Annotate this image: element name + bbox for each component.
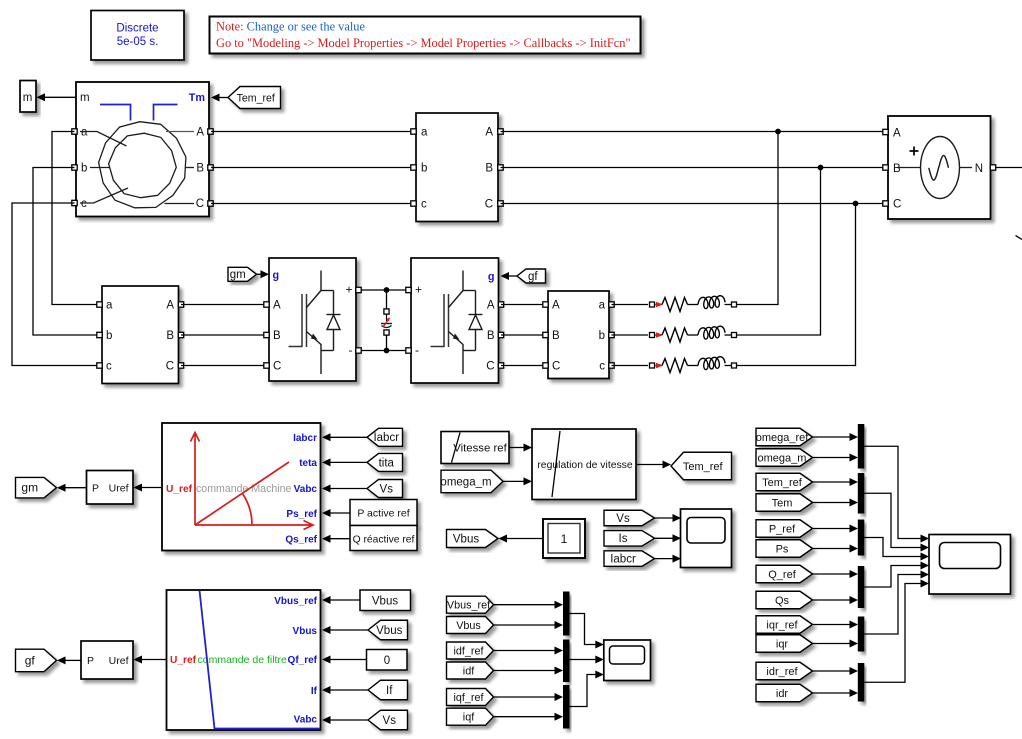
tag: Tem_ref Goto [671,452,732,480]
icon: source plus [910,150,919,152]
svg-text:C: C [273,361,281,373]
wire: meas1 C to source C [501,203,889,205]
svg-text:omega_m: omega_m [440,476,491,488]
wire: machine c loop to meas2 c [12,203,99,366]
svg-text:gm: gm [21,481,38,495]
svg-text:b: b [599,330,605,342]
svg-text:m: m [80,92,90,104]
wire: right mux2 to scope3 [864,493,920,547]
port: meas1 c [411,201,416,206]
svg-text:B: B [485,163,493,175]
component: RL branch phase c [612,365,649,367]
tag: Tem_ref From (right mux) [756,473,813,491]
junction: phase C [853,201,859,207]
wire: DC bus minus [361,350,409,352]
port: meas3 C [543,363,548,368]
port: source A [883,129,888,134]
icon: machine lead b [90,167,110,169]
block: IGBT converter 1 (machine side) [269,258,356,381]
svg-text:gf: gf [528,271,538,283]
icon: machine outer stator circle [99,122,186,208]
mux: mid bar 2 [563,640,570,683]
wire: RL b up to phase B [737,168,821,336]
block: terminator m [20,81,36,113]
svg-text:Vbus: Vbus [293,626,318,637]
port: meas2 B [178,332,183,337]
block: scope 1 [681,509,732,568]
svg-text:Ps: Ps [776,543,789,555]
svg-text:C: C [552,361,560,373]
wire: iqr_ref to right mux [813,624,850,626]
wire: Qs to right mux [813,599,850,601]
wire: Vbus rect to Vbus_ref [331,599,361,601]
svg-text:P: P [92,483,99,495]
svg-text:omega_m: omega_m [758,452,807,464]
svg-text:Tem: Tem [772,497,793,509]
wire: Tem_ref to right mux [813,481,850,483]
svg-text:A: A [487,300,495,312]
wire: Tem_ref to machine Tm [220,97,230,99]
icon: blue curve [200,591,321,729]
wire: source N output [996,167,1022,169]
wire: P1 to gm goto [65,487,87,489]
svg-text:c: c [106,361,112,373]
icon: machine cage blue left [100,105,131,121]
svg-text:C: C [485,199,493,211]
port: meas2 c [97,363,102,368]
tag: Vs From (machine) [367,480,403,498]
wire: machine b loop to meas2 b [33,168,99,336]
tag: gm Goto [16,477,57,498]
wire: mid mux2 to scope2 [570,659,596,661]
wire: mid mux1 to scope2 [570,614,596,645]
icon: source lead left [898,167,921,169]
block: IGBT converter 2 (grid side) [411,258,499,383]
wire: meas2 A to converter1 A [181,304,269,306]
port: meas3 A [543,302,548,307]
port: meas3 b [609,332,614,337]
port: machine B [208,165,213,170]
wire: Tem to right mux [813,502,850,504]
svg-text:B: B [166,330,174,342]
junction: DC plus [384,287,390,293]
svg-text:B: B [487,330,495,342]
svg-text:Vbus_ref: Vbus_ref [447,600,491,612]
tag: Vbus Goto (from 1) [447,530,499,548]
block: Vitesse ref [441,432,509,464]
block: Vbus goto rect [360,590,411,611]
tag: iqf From (mid mux) [447,708,494,725]
svg-text:-: - [415,343,419,357]
svg-text:gm: gm [230,269,246,281]
wire: Q_ref to right mux [813,573,850,575]
svg-text:Qf_ref: Qf_ref [288,655,318,666]
block: asynchronous machine [76,82,209,217]
icon: red arc [243,494,253,526]
tag: iqf_ref From (mid mux) [447,689,494,706]
port: machine b [72,165,77,170]
block: constant 1 double border [543,519,585,558]
icon: machine lead C [165,203,195,205]
svg-text:5e-05 s.: 5e-05 s. [117,36,159,48]
wire: Iabcr to scope1 [655,558,673,560]
svg-text:g: g [488,271,495,283]
svg-text:C: C [486,361,494,373]
tag: Vs From (filtre) [368,710,408,730]
svg-text:C: C [196,198,204,210]
svg-text:Q réactive ref: Q réactive ref [353,535,415,546]
port: converter2 minus [406,348,411,353]
port: meas1 B [498,165,503,170]
wire: 1 to Vbus goto [507,538,544,540]
svg-text:Vitesse ref: Vitesse ref [453,443,507,455]
svg-text:iqf: iqf [463,712,475,724]
icon: machine lead c [80,188,128,203]
port: machine A [208,129,213,134]
svg-text:Iabcr: Iabcr [610,554,636,566]
block: commande Machine [162,423,321,551]
block: Q reactive ref [350,526,417,551]
wire: omega_m to regulation [503,480,525,482]
block: scope 3 [929,535,1011,595]
svg-text:idf: idf [463,665,475,677]
wire: converter2 B to meas3 B [501,334,548,336]
svg-text:gf: gf [25,653,36,667]
svg-text:commande de filtre: commande de filtre [198,654,287,666]
svg-text:regulation de vitesse: regulation de vitesse [537,460,633,471]
wire: iqf_ref to mux [494,696,555,698]
port: machine a [72,129,77,134]
svg-text:-: - [349,343,353,357]
svg-text:P active ref: P active ref [357,508,409,520]
mux: right bar 5 [858,617,865,652]
svg-text:Uref: Uref [109,655,129,667]
block: constant 0 [367,650,408,671]
svg-text:P_ref: P_ref [769,523,796,535]
port: meas1 b [411,165,416,170]
wire: right mux3 to scope3 [864,538,920,557]
svg-text:m: m [23,92,33,104]
wire: tita to commande [331,461,368,463]
wire: omega_ref to right mux [813,436,850,438]
svg-text:Vbus_ref: Vbus_ref [274,596,317,607]
svg-text:U_ref: U_ref [170,655,197,666]
svg-text:Discrete: Discrete [116,23,158,35]
icon: source ellipse [921,137,960,199]
mux: right bar 4 [858,566,865,608]
tag: Vs From (scope1) [604,510,655,526]
block: powergui Discrete 5e-05 s. [91,11,184,61]
wire: right mux5 to scope3 [864,575,920,635]
tag: idr_ref From (right mux) [756,662,813,680]
tag: Is From (scope1) [604,531,655,547]
svg-text:A: A [166,300,174,312]
junction: phase A [775,129,781,135]
tag: idr From (right mux) [756,684,813,702]
wire: idf_ref to mux [494,650,555,652]
wire: Iabcr to commande [331,436,368,438]
svg-text:0: 0 [384,655,390,667]
svg-text:A: A [893,128,901,140]
port: source C [883,201,888,206]
svg-text:c: c [81,198,87,210]
icon: machine lead B [186,167,194,169]
port: converter2 B [498,332,503,337]
wire: RL a up to phase A [737,132,779,305]
svg-text:a: a [421,127,428,139]
port: converter2 A [498,302,503,307]
mux: right bar 3 [858,520,865,556]
tag: Vbus From (mid mux) [447,617,494,634]
svg-text:a: a [106,300,113,312]
svg-text:Tem_ref: Tem_ref [237,92,275,104]
svg-text:c: c [421,199,427,211]
svg-text:omega_ref: omega_ref [756,432,810,444]
tag: Iabcr From [367,428,403,446]
svg-text:Uref: Uref [109,483,129,495]
tag: omega_m From (vitesse) [441,470,503,493]
capacitor: DC bus branch [386,290,388,309]
svg-text:Qs: Qs [775,595,790,607]
wire: If to filtre [331,689,369,691]
port: converter2 C [498,363,503,368]
svg-text:idf_ref: idf_ref [453,645,484,657]
port: meas3 c [609,363,614,368]
wire: Is to scope1 [655,537,673,539]
port: converter1 minus [356,348,361,353]
wire: P active ref to commande [331,512,351,514]
wire: converter2 C to meas3 C [501,365,548,367]
svg-text:Iabcr: Iabcr [293,433,317,444]
block: scope 2 [604,640,651,681]
svg-text:Note: Change or see the value: Note: Change or see the value [216,20,365,34]
block: three-phase measurement 3 [548,291,609,379]
tag: Qs From (right mux) [756,591,813,609]
svg-text:idr: idr [776,688,789,700]
port: meas2 b [97,332,102,337]
svg-text:Is: Is [619,533,628,545]
port: converter1 plus [356,287,361,292]
svg-text:A: A [196,127,204,139]
svg-text:Q_ref: Q_ref [768,569,796,581]
port: source B [883,165,888,170]
wire: meas1 A to source A [501,131,889,133]
port: converter1 B [264,332,269,337]
block: PWM generator 2 [81,641,133,679]
tag: idf_ref From (mid mux) [447,642,494,659]
mux: right bar 1 [858,424,865,469]
block: regulation de vitesse [532,429,636,500]
port: meas3 B [543,332,548,337]
svg-text:a: a [599,300,606,312]
port: meas2 C [178,363,183,368]
block: three-phase source [888,116,991,219]
wire: 0 to Qf_ref [331,659,367,661]
port: source N [990,165,995,170]
svg-text:Ps_ref: Ps_ref [286,509,317,520]
wire: P_ref to right mux [813,528,850,530]
wire: machine C to measurement c [211,203,416,205]
svg-text:Vbus: Vbus [456,620,481,632]
port: meas2 a [97,302,102,307]
port: machine C [208,201,213,206]
svg-text:Iabcr: Iabcr [373,432,399,444]
svg-text:P: P [87,655,94,667]
port: meas2 A [178,302,183,307]
wire: Vs to commande [331,488,368,490]
tag: iqr_ref From (right mux) [756,616,813,634]
svg-text:A: A [485,127,493,139]
svg-text:Vbus: Vbus [376,625,402,637]
svg-text:B: B [552,330,560,342]
svg-text:1: 1 [561,532,568,546]
icon: machine lead A [166,131,194,133]
svg-text:g: g [273,270,280,282]
svg-text:b: b [81,163,87,175]
svg-text:Qs_ref: Qs_ref [285,535,317,546]
mux: right bar 2 [858,473,865,514]
port: meas1 A [498,129,503,134]
svg-text:+: + [415,283,422,297]
wire: right mux4 to scope3 [864,566,920,588]
svg-text:idr_ref: idr_ref [766,666,798,678]
wire: DC bus plus [361,289,409,291]
icon: regulation curve [552,431,560,497]
icon: machine cage blue right [154,105,178,121]
svg-text:A: A [273,300,281,312]
junction: DC minus [384,348,390,354]
block: P active ref [350,500,417,526]
svg-text:If: If [386,685,393,697]
annotation: note box [210,17,641,54]
icon: red axes [191,433,200,526]
svg-text:teta: teta [299,458,317,469]
svg-text:Vs: Vs [616,513,630,525]
tag: Q_ref From (right mux) [756,565,813,583]
svg-text:Vabc: Vabc [294,715,318,726]
wire: meas2 C to converter1 C [181,365,269,367]
icon: machine inner rotor circle [109,133,177,198]
wire: Vs to Vabc filtre [331,719,369,721]
icon: converter1 IGBT+diode [289,346,303,348]
tag: If From [368,680,408,700]
svg-text:+: + [345,283,352,297]
wire: right mux6 to scope3 [864,584,920,683]
wire: Vitesse ref to regulation [509,447,525,449]
icon: machine lead a [80,132,127,147]
wire: P2 to gf goto [65,659,81,661]
svg-text:C: C [166,361,174,373]
tag: omega_ref From (right mux) [756,428,813,446]
wire: mid mux3 to scope2 [570,675,596,707]
icon: red diagonal [195,462,289,525]
tag: omega_m From (right mux) [756,449,813,467]
icon: source sine [929,156,949,181]
tag: idf From (mid mux) [447,662,494,679]
junction: phase B [818,165,824,171]
svg-text:Tem_ref: Tem_ref [762,477,803,489]
svg-text:b: b [106,330,112,342]
icon: source lead right [960,167,973,169]
svg-text:N: N [975,163,983,175]
wire: Vbus_ref to mux [494,604,555,606]
port: converter1 C [264,363,269,368]
svg-text:Go to "Modeling -> Model Prope: Go to "Modeling -> Model Properties -> M… [216,36,631,50]
icon: converter2 IGBT+diode [431,346,445,348]
port: meas3 a [609,302,614,307]
svg-text:Vs: Vs [380,483,394,495]
wire: meas2 B to converter1 B [181,334,269,336]
port: machine c [72,200,77,205]
component: RL branch phase a [612,304,649,306]
wire: right mux1 to scope3 [864,446,920,538]
wire: idr_ref to right mux [813,670,850,672]
wire: iqf to mux [494,716,555,718]
mux: mid bar 1 [563,592,570,636]
tag: gf Goto [16,649,57,672]
svg-text:Tm: Tm [189,92,205,104]
wire: Q reactive ref to commande [331,538,351,540]
wire: Vbus to filtre [331,629,369,631]
wire: machine B to measurement b [211,167,416,169]
svg-text:B: B [273,330,281,342]
component: RL branch phase b [612,334,649,336]
svg-text:C: C [893,199,901,211]
icon: vitesse ramp [452,433,461,463]
wire: commande filtre U_ref to P2 [142,659,167,661]
svg-text:Vs: Vs [383,715,397,727]
wire: machine a loop to meas2 a [52,132,99,305]
svg-text:tita: tita [379,457,395,469]
wire: commande machine U_ref to P1 [142,487,163,489]
svg-text:iqf_ref: iqf_ref [453,692,484,704]
wire: machine m output to terminator [44,96,77,98]
wire: Vbus to mux [494,624,555,626]
tag: P_ref From (right mux) [756,520,813,538]
tag: tita From [367,453,403,471]
wire: idf to mux [494,670,555,672]
svg-text:B: B [196,163,204,175]
tag: Vbus From 2 [368,620,408,640]
wire: machine A to measurement a [211,131,416,133]
block: PWM generator 1 [87,471,134,505]
block: three-phase measurement 1 [416,113,498,222]
port: converter2 plus [406,287,411,292]
block: commande de filtre [167,590,321,730]
wire: meas1 B to source B [501,167,889,169]
svg-text:Tem_ref: Tem_ref [683,461,724,473]
wire: regulation to Tem_ref goto [636,464,663,466]
wire: RL c up to phase C [737,204,856,366]
tag: Iabcr From (scope1) [604,551,655,567]
mux: right bar 6 [858,663,865,702]
tag: Tem From (right mux) [756,494,813,512]
wire: Vs to scope1 [655,517,673,519]
wire: gf to converter2 g [509,275,518,277]
tag: Tem_ref From (to Tm) [228,87,281,109]
port: meas1 a [411,129,416,134]
wire: omega_m to right mux [813,457,850,459]
tag: Ps From (right mux) [756,540,813,558]
svg-text:iqr_ref: iqr_ref [766,619,798,631]
wire: idr to right mux [813,692,850,694]
mux: mid bar 3 [563,685,570,729]
tag: gm From (to converter1 g) [228,267,257,281]
svg-text:c: c [599,361,605,373]
tag: iqr From (right mux) [756,635,813,653]
svg-text:b: b [421,163,427,175]
port: converter1 A [264,302,269,307]
